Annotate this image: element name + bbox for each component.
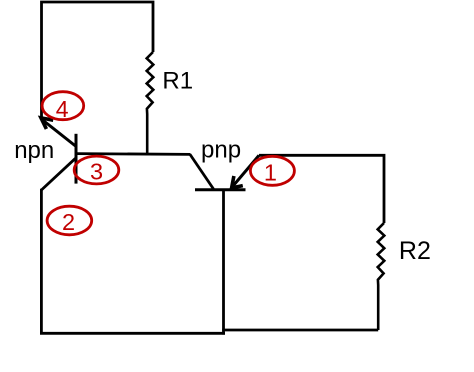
- wire: lower-left rectangle (left side and bottom): [41, 189, 225, 333]
- svg-text:4: 4: [56, 96, 69, 122]
- svg-text:pnp: pnp: [201, 137, 241, 164]
- transistor Q1 npn: emitter lead with arrowhead: [41, 118, 76, 146]
- wire: top-left loop (left vertical, top horizontal, right vertical to R1): [42, 2, 154, 119]
- svg-text:3: 3: [90, 158, 103, 184]
- transistor Q1 npn: base bar: [75, 134, 78, 184]
- annotation circle 2: [47, 206, 92, 235]
- annotation circle 4: [42, 92, 84, 122]
- svg-text:R2: R2: [399, 237, 431, 265]
- resistor R1: [147, 52, 154, 155]
- svg-text:npn: npn: [14, 137, 54, 164]
- wire: pnp base lead down (divider): [222, 190, 225, 335]
- svg-text:2: 2: [62, 209, 75, 235]
- transistor Q2 pnp: base bar: [195, 188, 246, 191]
- wire: right rectangle bottom: [222, 329, 378, 332]
- svg-text:R1: R1: [162, 68, 193, 95]
- transistor Q2 pnp: collector lead (left diagonal): [190, 154, 214, 189]
- wire: right horizontal from pnp emitter to R2 top: [259, 155, 384, 223]
- annotation circle 3: [74, 156, 119, 184]
- annotation circle 1: [250, 156, 294, 185]
- wire: mid horizontal node (npn base to pnp): [76, 152, 191, 156]
- resistor R2: [378, 223, 385, 330]
- transistor Q2 pnp: emitter lead with arrowhead: [232, 155, 259, 188]
- svg-text:1: 1: [264, 160, 277, 186]
- transistor Q1 npn: collector lead (to lower-left rectangle): [41, 158, 76, 190]
